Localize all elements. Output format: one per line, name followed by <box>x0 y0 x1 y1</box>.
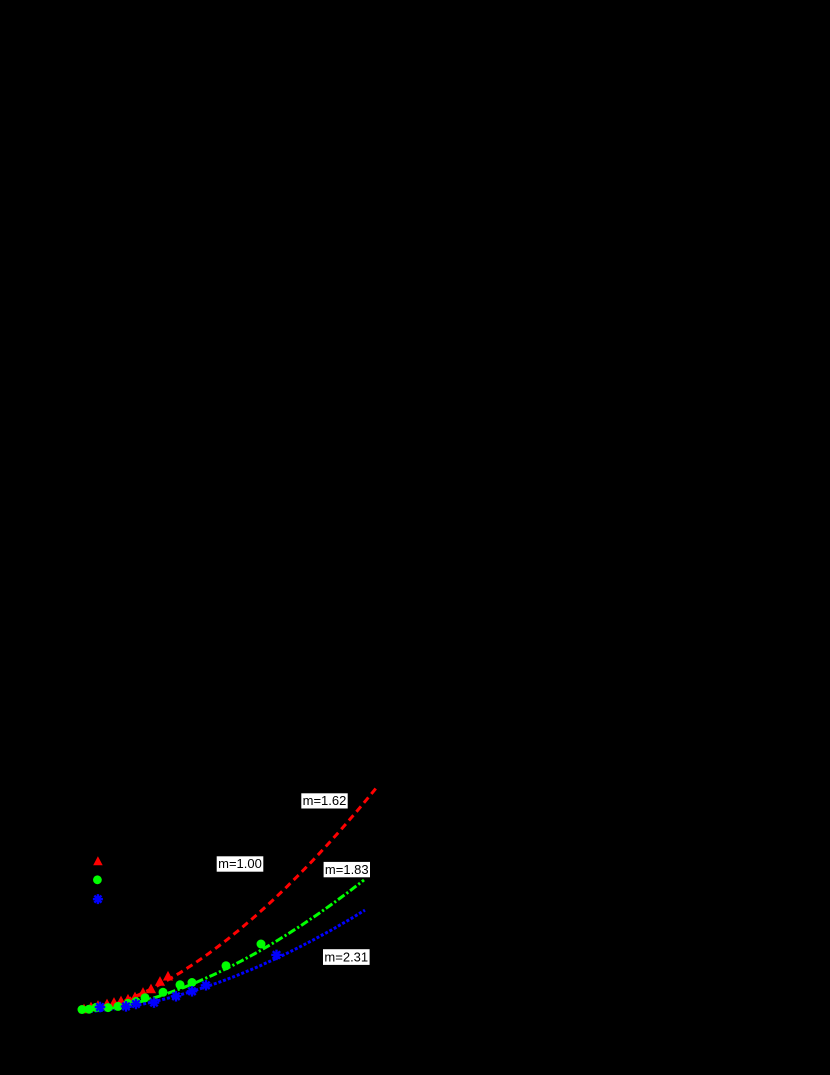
legend red triangle <box>93 856 103 865</box>
red dashed fit curve m=1.62 <box>80 788 376 1012</box>
legend green circle <box>93 875 102 884</box>
green dash-dot fit curve m=1.83 <box>80 880 364 1012</box>
svg-text:m=1.62: m=1.62 <box>303 793 347 808</box>
label m=1.00 <box>217 856 264 872</box>
legend blue asterisk <box>93 894 103 904</box>
green circle data points <box>78 940 266 1015</box>
label m=2.31 <box>323 949 370 965</box>
label m=1.62 <box>301 793 347 809</box>
svg-text:m=1.83: m=1.83 <box>325 862 369 877</box>
svg-text:m=1.00: m=1.00 <box>218 856 262 871</box>
red triangle data points <box>79 971 173 1013</box>
blue asterisk data points <box>95 950 282 1013</box>
svg-text:m=2.31: m=2.31 <box>324 949 368 964</box>
blue dotted fit curve m=2.31 <box>80 910 365 1012</box>
label m=1.83 <box>324 862 370 878</box>
